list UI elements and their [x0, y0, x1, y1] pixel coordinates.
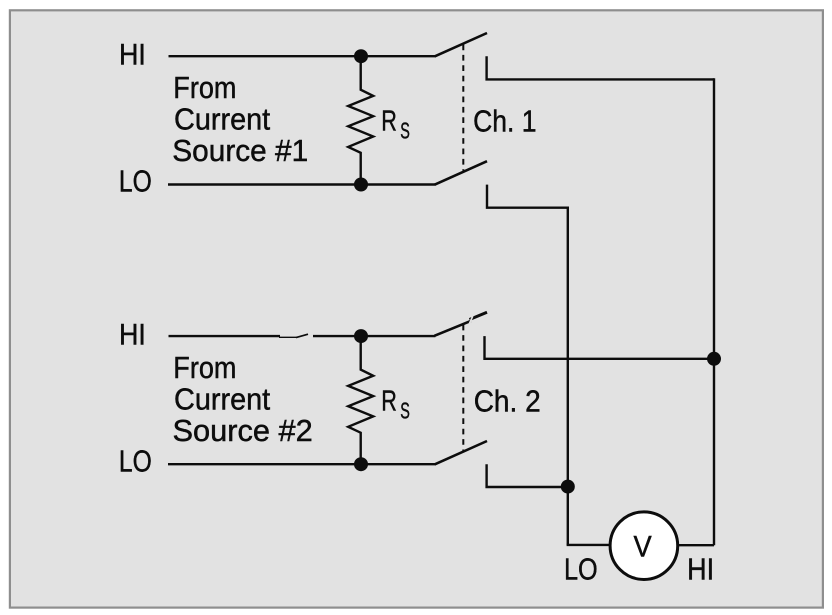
voltmeter V (circle body) — [610, 512, 678, 580]
switch S2b throw contact + wire to LO bus — [487, 464, 568, 487]
svg-text:R: R — [381, 105, 397, 137]
svg-text:S: S — [400, 118, 410, 144]
svg-text:Ch. 1: Ch. 1 — [473, 104, 536, 138]
wire: Ch.2 HI pole line (with scan break) — [169, 334, 436, 337]
wire: Ch.1 HI pole line — [169, 55, 436, 57]
svg-text:From: From — [173, 70, 236, 105]
svg-text:Current: Current — [174, 382, 271, 417]
svg-text:R: R — [381, 385, 397, 417]
wire: voltmeter HI terminal to HI bus — [678, 544, 714, 546]
svg-text:HI: HI — [119, 318, 146, 351]
switch S2a blade (Ch. 2 HI, drawn in two strokes) — [434, 312, 487, 336]
gang link (dashed) for switch Ch. 2 — [462, 325, 464, 451]
switch S1a throw contact + wire to HI bus — [487, 56, 714, 79]
switch S2a throw contact + wire to HI bus — [485, 336, 715, 359]
svg-text:Source #1: Source #1 — [172, 133, 308, 168]
wire: LO bus vertical (middle) — [567, 207, 569, 545]
wire: LO bus to voltmeter LO terminal — [568, 544, 610, 545]
svg-text:S: S — [400, 398, 410, 424]
switch S1a blade (Ch. 1 HI) — [435, 33, 487, 56]
svg-text:Current: Current — [174, 102, 271, 137]
node: Ch.2 LO / RS junction — [354, 457, 368, 471]
node: Ch.2 LO throw joins LO bus — [561, 480, 575, 494]
svg-text:From: From — [173, 350, 236, 385]
switch S2b blade (Ch. 2 LO) — [435, 441, 487, 464]
resistor RS (Ch. 1) — [348, 56, 373, 184]
resistor RS (Ch. 2) — [348, 336, 373, 464]
svg-text:V: V — [634, 530, 652, 563]
label From Current Source #1 — [172, 70, 308, 168]
svg-text:HI: HI — [119, 38, 146, 71]
wire: HI bus vertical (right side) — [713, 78, 715, 545]
wire: Ch.1 LO pole line — [168, 183, 435, 185]
svg-text:LO: LO — [119, 444, 152, 479]
svg-text:LO: LO — [119, 164, 152, 199]
svg-text:Source #2: Source #2 — [173, 413, 313, 448]
switch S1b throw contact + wire toward LO bus — [487, 185, 568, 208]
node: Ch.2 HI / RS junction — [354, 329, 368, 343]
node: Ch.1 HI / RS junction — [354, 49, 368, 63]
svg-text:Ch. 2: Ch. 2 — [474, 384, 541, 418]
value label RS (Ch. 1) — [381, 105, 410, 143]
label From Current Source #2 — [173, 350, 313, 448]
svg-text:HI: HI — [687, 551, 714, 586]
wire: Ch.2 LO pole line — [168, 463, 435, 465]
node: Ch.1 LO / RS junction — [354, 178, 368, 192]
svg-text:LO: LO — [564, 551, 598, 586]
switch S1b blade (Ch. 1 LO) — [435, 161, 487, 185]
gang link (dashed) for switch Ch. 1 — [462, 45, 464, 171]
node: Ch.2 HI throw joins HI bus — [707, 352, 721, 366]
value label RS (Ch. 2) — [381, 385, 410, 423]
